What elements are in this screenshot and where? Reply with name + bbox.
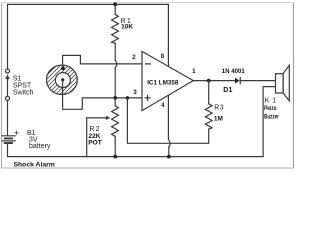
buzzer K1 speaker [276, 65, 290, 101]
svg-text:Switch: Switch [13, 90, 34, 97]
svg-text:SPST: SPST [13, 83, 32, 90]
svg-text:battery: battery [29, 143, 51, 150]
potentiometer R2 wiper leader arrow from ground rail [87, 118, 106, 157]
op-amp inverting input marker [146, 63, 151, 65]
sensor center terminal dot [61, 78, 64, 81]
wire feedback R3 bottom to pin-3 node [127, 98, 208, 143]
node junction output to R3 [207, 79, 211, 83]
node junction feedback tap on pin-3 line [126, 96, 130, 100]
diode D1 1N4001 [235, 77, 276, 84]
wire pin 4 op-amp to ground rail with hop over feedback line [168, 95, 170, 156]
svg-text:+: + [14, 128, 19, 138]
resistor R3 1M [205, 81, 212, 144]
svg-text:K 1: K 1 [265, 98, 276, 105]
battery B1 plates [2, 136, 15, 143]
wire left rail from top rail down to switch S1 [7, 4, 9, 69]
svg-text:10K: 10K [121, 23, 133, 30]
switch S1 [5, 69, 10, 100]
node junction R2 bottom on ground rail [113, 155, 117, 159]
wire buzzer return riser to buzzer bottom terminal [263, 87, 275, 157]
wire pin 8 V+ supply to op-amp [167, 4, 169, 66]
op-amp non-inverting input marker [145, 97, 150, 99]
shock sensor piezo disc [40, 37, 85, 122]
svg-text:IC1 LM358: IC1 LM358 [147, 80, 179, 87]
wire pin-2 net sensor ring to op-amp inverting input [63, 55, 142, 66]
sensor ring terminal dot [61, 67, 65, 71]
wire op-amp output pin 1 [193, 80, 235, 82]
label B1 3V battery [27, 130, 51, 150]
svg-text:1N 4001: 1N 4001 [222, 68, 245, 75]
svg-text:Buzzer: Buzzer [264, 115, 279, 121]
svg-text:POT: POT [88, 140, 101, 147]
op-amp U1 IC1 LM358 triangle [142, 51, 193, 110]
wire top rail V+ [8, 3, 169, 5]
label S1 SPST Switch [13, 75, 34, 96]
svg-text:R3: R3 [214, 104, 224, 111]
svg-text:1M: 1M [214, 116, 223, 123]
svg-text:S1: S1 [13, 75, 22, 82]
svg-text:Peizo: Peizo [264, 106, 277, 112]
node junction pin 4 on ground rail [167, 155, 171, 159]
wire battery B1 to bottom rail [7, 144, 9, 157]
wire bottom rail ground return [8, 156, 264, 158]
wire pin-3 net sensor center to op-amp non-inverting input [63, 80, 142, 109]
svg-text:Shock Alarm: Shock Alarm [14, 161, 55, 168]
wire hop R1 column crosses pin-2 line [115, 60, 117, 68]
node junction R1 R2 divider tap on pin-3 line [113, 96, 117, 100]
potentiometer R2 22K [87, 98, 119, 157]
node junction R1 top on V+ rail [113, 2, 117, 6]
svg-text:D1: D1 [223, 87, 232, 94]
wire switch S1 to battery B1 [7, 100, 9, 135]
resistor R1 10K [112, 4, 119, 98]
